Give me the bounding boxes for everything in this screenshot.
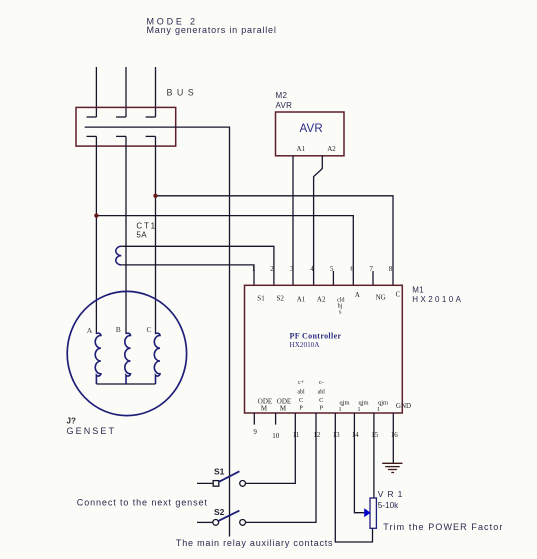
svg-text:qjm: qjm	[378, 400, 388, 407]
svg-text:A: A	[355, 291, 360, 299]
breaker contact upper pole C	[146, 116, 156, 118]
svg-text:1: 1	[252, 265, 256, 273]
svg-text:AVR: AVR	[276, 101, 293, 110]
svg-text:6: 6	[350, 265, 354, 273]
junction dot phase C tap	[153, 194, 157, 198]
svg-text:13: 13	[333, 431, 341, 439]
svg-text:CT1: CT1	[136, 222, 157, 231]
svg-text:A1: A1	[297, 295, 306, 303]
svg-text:1: 1	[358, 407, 361, 413]
ground symbol	[382, 463, 402, 472]
pin 5 stub	[332, 271, 334, 285]
svg-text:abl: abl	[297, 390, 305, 396]
wire phase C drop to genset	[155, 136, 157, 334]
pin label c- abl C P at 12	[318, 380, 326, 412]
svg-text:P: P	[319, 405, 323, 412]
wire phase B top drop	[125, 67, 127, 117]
switch S2 left terminal	[213, 520, 219, 526]
svg-text:A: A	[87, 326, 93, 335]
wire phase A top drop	[95, 67, 97, 117]
breaker contact upper pole B	[116, 116, 126, 118]
svg-text:14: 14	[352, 431, 360, 439]
svg-text:8: 8	[389, 265, 393, 273]
breaker contact lower pole C	[146, 135, 156, 137]
breaker contact lower pole B	[116, 135, 126, 137]
wire pin 16 to ground	[392, 413, 394, 463]
pin 9 stub	[253, 413, 255, 425]
potentiometer VR1 wiper arrow	[364, 508, 370, 517]
wire pin 13 to VR1 bottom	[335, 413, 372, 542]
svg-text:AVR: AVR	[300, 123, 323, 135]
svg-text:4: 4	[310, 265, 314, 273]
svg-text:S2: S2	[276, 295, 284, 303]
svg-text:3: 3	[290, 265, 294, 273]
svg-text:5A: 5A	[136, 231, 147, 240]
svg-text:C: C	[146, 325, 151, 334]
pin label ODE M at 9	[258, 398, 272, 413]
wire star point	[96, 383, 155, 385]
svg-text:c+: c+	[298, 380, 305, 386]
winding B	[125, 333, 131, 384]
svg-text:J?: J?	[67, 417, 76, 426]
wire bus middle bar to S1 S2 column	[85, 127, 230, 536]
svg-text:1: 1	[339, 407, 342, 413]
svg-text:A2: A2	[317, 295, 326, 303]
pin label qjm at 13	[339, 400, 350, 414]
svg-text:S1: S1	[214, 466, 225, 476]
svg-text:5: 5	[330, 265, 334, 273]
svg-text:Trim the POWER Factor: Trim the POWER Factor	[383, 522, 503, 532]
pin 10 stub	[275, 413, 277, 425]
controller M1 box	[245, 285, 403, 413]
wire net phase A to pin 6	[96, 216, 353, 286]
svg-text:VR1: VR1	[378, 489, 407, 499]
svg-text:qjm: qjm	[358, 400, 368, 407]
wire AVR A2 to pin 4	[314, 156, 323, 285]
svg-text:PF Controller: PF Controller	[290, 332, 342, 341]
regulator M2 AVR box	[276, 112, 345, 156]
svg-text:A2: A2	[327, 145, 336, 153]
svg-text:Many generators in parallel: Many generators in parallel	[147, 25, 277, 35]
svg-text:12: 12	[313, 431, 321, 439]
svg-text:GND: GND	[396, 402, 411, 410]
breaker contact lower pole A	[87, 135, 97, 137]
pin label qjm at 15	[377, 400, 388, 414]
winding A	[95, 333, 101, 384]
generator J7 circle	[67, 291, 186, 415]
svg-text:M: M	[280, 405, 287, 413]
pin label ODE M at 10	[277, 398, 291, 413]
switch S2 blade	[219, 511, 240, 521]
svg-text:7: 7	[369, 265, 373, 273]
svg-text:The main relay auxiliary conta: The main relay auxiliary contacts	[176, 538, 333, 548]
svg-text:5-10k: 5-10k	[378, 501, 399, 510]
switch S1 left terminal	[213, 481, 219, 487]
switch S2 right terminal	[240, 520, 246, 526]
wire phase B drop to genset	[125, 136, 127, 334]
wire CT1 top lead to pin 2	[121, 246, 274, 285]
svg-text:2: 2	[270, 265, 274, 273]
svg-text:M: M	[261, 405, 268, 413]
winding C	[154, 333, 160, 384]
svg-text:1: 1	[377, 407, 380, 413]
svg-text:BUS: BUS	[167, 87, 199, 97]
svg-text:C: C	[396, 291, 401, 299]
wire CT1 bottom lead to pin 1	[121, 265, 254, 285]
svg-text:S1: S1	[257, 295, 265, 303]
wire phase A drop to genset	[95, 136, 97, 334]
svg-text:Connect to the next genset: Connect to the next genset	[77, 497, 208, 507]
svg-text:NG: NG	[376, 294, 386, 302]
svg-text:C: C	[299, 397, 303, 404]
svg-text:M1: M1	[412, 286, 424, 295]
switch S1 blade	[219, 471, 239, 482]
svg-text:c-: c-	[319, 380, 324, 386]
svg-text:abl: abl	[318, 390, 326, 396]
svg-text:B: B	[116, 325, 121, 334]
svg-text:C: C	[319, 397, 323, 404]
svg-text:GENSET: GENSET	[67, 426, 117, 436]
svg-text:qjm: qjm	[339, 400, 349, 407]
svg-text:16: 16	[391, 431, 399, 439]
wire pin 12 to S2	[246, 413, 317, 522]
breaker CB1 box	[76, 107, 176, 146]
potentiometer VR1 body	[370, 498, 376, 528]
svg-text:10: 10	[272, 432, 280, 440]
switch S1 right terminal	[240, 481, 246, 487]
junction dot phase A tap	[94, 213, 98, 217]
svg-text:A1: A1	[297, 145, 306, 153]
transformer CT1 secondary coil	[116, 246, 122, 265]
wire AVR A1 to pin 3	[292, 156, 294, 285]
svg-text:15: 15	[371, 431, 379, 439]
wire net phase C to pin 8	[156, 196, 394, 285]
breaker contact upper pole A	[87, 116, 97, 118]
pin 7 stub	[372, 271, 374, 285]
svg-text:M2: M2	[276, 91, 288, 100]
wire pin 15 to VR1 top	[373, 413, 375, 498]
pin label cld bj s	[337, 297, 344, 315]
pin label qjm at 14	[358, 400, 369, 414]
svg-text:HX2010A: HX2010A	[290, 341, 321, 349]
svg-text:9: 9	[253, 428, 257, 436]
svg-text:HX2010A: HX2010A	[412, 295, 463, 304]
svg-text:S2: S2	[214, 507, 225, 517]
wire pin 11 to S1	[246, 413, 296, 483]
wire S1 left lead	[197, 482, 213, 484]
pin label c+ abl C P at 11	[297, 380, 305, 412]
wire S2 left lead	[197, 521, 213, 523]
wire phase C top drop	[155, 67, 157, 117]
svg-text:11: 11	[293, 431, 300, 439]
wire pin 14 to VR1 wiper	[354, 413, 364, 513]
svg-text:P: P	[299, 405, 303, 412]
